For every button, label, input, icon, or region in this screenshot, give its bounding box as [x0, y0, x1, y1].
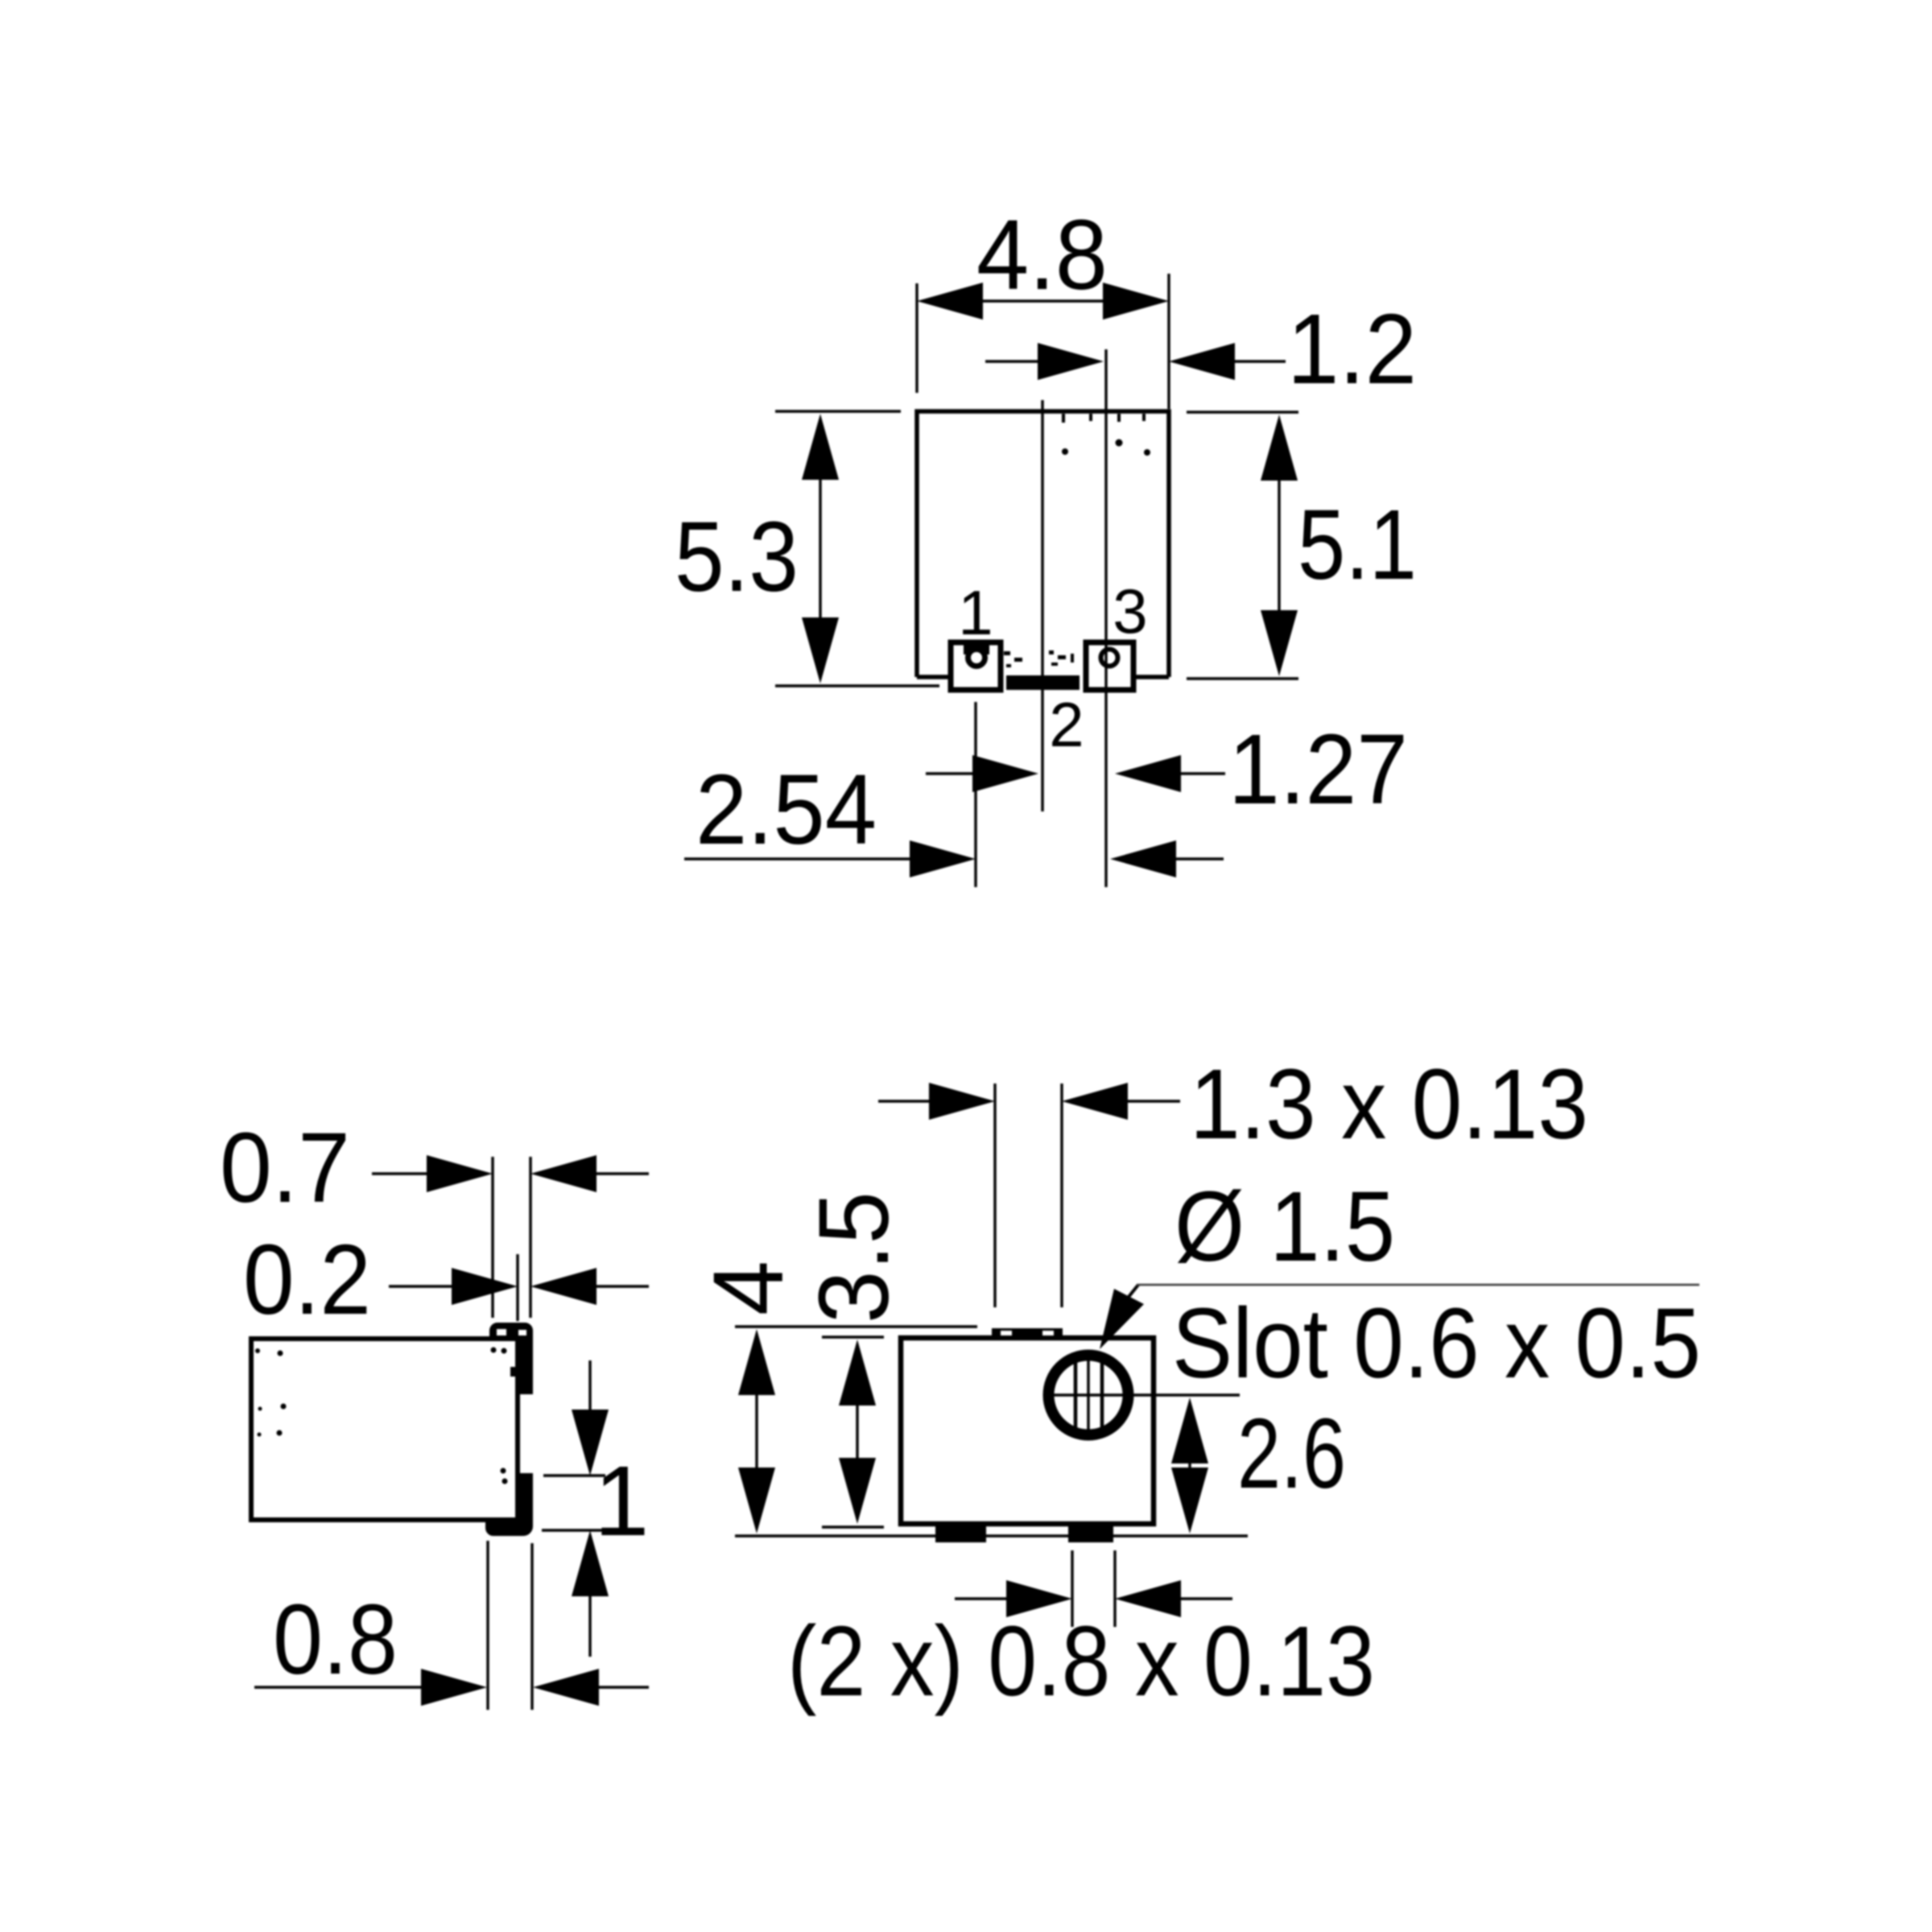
dimension 2.6 (screw center height) [1171, 1397, 1346, 1534]
svg-text:4.8: 4.8 [976, 200, 1108, 311]
svg-text:4: 4 [694, 1261, 804, 1315]
dimension 0.7 (tab width) [220, 1113, 649, 1318]
bottom terminal pin left [935, 1524, 986, 1542]
wiper slot center line (node line C) [1104, 349, 1107, 887]
dimension 1.27 (pin 2 to pin 3 pitch) [926, 715, 1408, 825]
svg-text:1.27: 1.27 [1228, 715, 1408, 825]
bottom terminal tab (side view) [486, 1474, 532, 1535]
body outline (screw side view) [901, 1338, 1154, 1524]
pin 3 pad with rivet [1086, 642, 1133, 690]
body outline (side view) [251, 1339, 518, 1520]
svg-text:3.5: 3.5 [799, 1191, 910, 1323]
pin 1 pad with rivet [951, 642, 1001, 690]
dimension 4.8 (body width) [917, 200, 1169, 409]
svg-text:Slot 0.6 x 0.5: Slot 0.6 x 0.5 [1172, 1289, 1701, 1399]
dimension (2 x) 0.8 x 0.13 (bottom pins) [787, 1550, 1375, 1717]
tiny mold markings [1004, 650, 1074, 667]
svg-text:1.2: 1.2 [1287, 295, 1417, 405]
top terminal tab (pin 2) [992, 1328, 1063, 1340]
top terminal tab (side view) [490, 1323, 532, 1393]
dimension 4 (overall height) [694, 1261, 977, 1534]
dimension 5.3 (left height) [675, 411, 939, 686]
svg-text:Ø 1.5: Ø 1.5 [1174, 1172, 1395, 1282]
dimension 1.2 (slot offset from right edge) [985, 295, 1417, 405]
body texture specks [255, 1348, 287, 1437]
svg-text:1: 1 [594, 1447, 649, 1557]
svg-text:0.2: 0.2 [243, 1225, 371, 1335]
svg-text:0.8: 0.8 [273, 1585, 398, 1695]
pin 1 center extension line (node line A) [974, 702, 976, 887]
dimension 3.5 (body height) [799, 1191, 910, 1527]
dimension 0.8 (bottom tab width) [254, 1541, 649, 1710]
svg-text:3: 3 [1113, 576, 1147, 646]
dimension 5.1 (right height) [1187, 412, 1417, 679]
pin 2 pad (black bar) [1006, 675, 1080, 690]
svg-text:2.54: 2.54 [696, 755, 877, 865]
svg-text:1: 1 [958, 577, 993, 648]
trimmer body outline (front view) [917, 411, 1169, 677]
dimension 2.54 (pin 1 to pin 3 pitch) [684, 755, 1224, 877]
seating plane line [735, 1534, 1248, 1538]
svg-text:1.3 x 0.13: 1.3 x 0.13 [1190, 1050, 1588, 1160]
bottom terminal pin right [1068, 1524, 1113, 1542]
dimension 1 (bottom tab height) [542, 1360, 649, 1657]
svg-text:2: 2 [1049, 689, 1084, 760]
body texture specks [1062, 414, 1150, 456]
svg-text:5.1: 5.1 [1298, 490, 1417, 601]
dimension 0.2 (tab standoff) [243, 1225, 649, 1335]
adjustment screw with slot [1044, 1356, 1240, 1435]
pin 2 center line (node line B) [1041, 400, 1043, 811]
leader arrow to screw [1100, 1285, 1699, 1349]
svg-text:(2 x) 0.8 x 0.13: (2 x) 0.8 x 0.13 [787, 1607, 1375, 1717]
svg-text:2.6: 2.6 [1237, 1399, 1346, 1509]
dimension 1.3 x 0.13 (top tab) [878, 1050, 1588, 1307]
svg-text:0.7: 0.7 [220, 1113, 350, 1224]
svg-text:5.3: 5.3 [675, 502, 799, 613]
